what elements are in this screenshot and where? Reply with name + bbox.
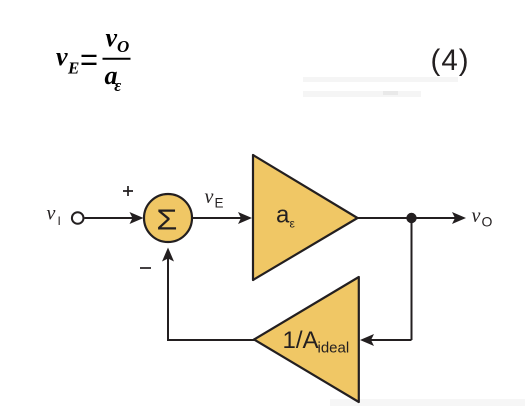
svg-text:v: v: [205, 186, 214, 208]
svg-text:v: v: [47, 203, 56, 225]
svg-text:ideal: ideal: [318, 340, 350, 357]
svg-text:(4): (4): [431, 44, 470, 77]
svg-text:O: O: [482, 214, 493, 230]
svg-text:O: O: [117, 37, 129, 56]
svg-text:ε: ε: [290, 217, 296, 231]
svg-text:a: a: [276, 201, 290, 228]
svg-text:E: E: [215, 196, 224, 211]
svg-text:ε: ε: [114, 76, 121, 95]
svg-text:Σ: Σ: [156, 203, 177, 236]
svg-text:E: E: [67, 59, 79, 78]
svg-text:1/A: 1/A: [283, 327, 319, 354]
svg-text:v: v: [106, 23, 118, 52]
svg-text:v: v: [56, 42, 68, 71]
svg-text:v: v: [472, 205, 481, 227]
svg-text:I: I: [58, 214, 61, 228]
